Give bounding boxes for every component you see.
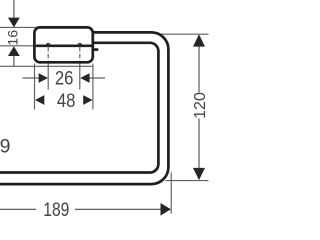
svg-text:189: 189 [43, 200, 69, 220]
svg-text:48: 48 [57, 90, 76, 112]
svg-text:9: 9 [0, 136, 10, 158]
svg-text:26: 26 [55, 68, 74, 90]
svg-text:120: 120 [192, 92, 209, 119]
svg-text:16: 16 [6, 30, 22, 46]
